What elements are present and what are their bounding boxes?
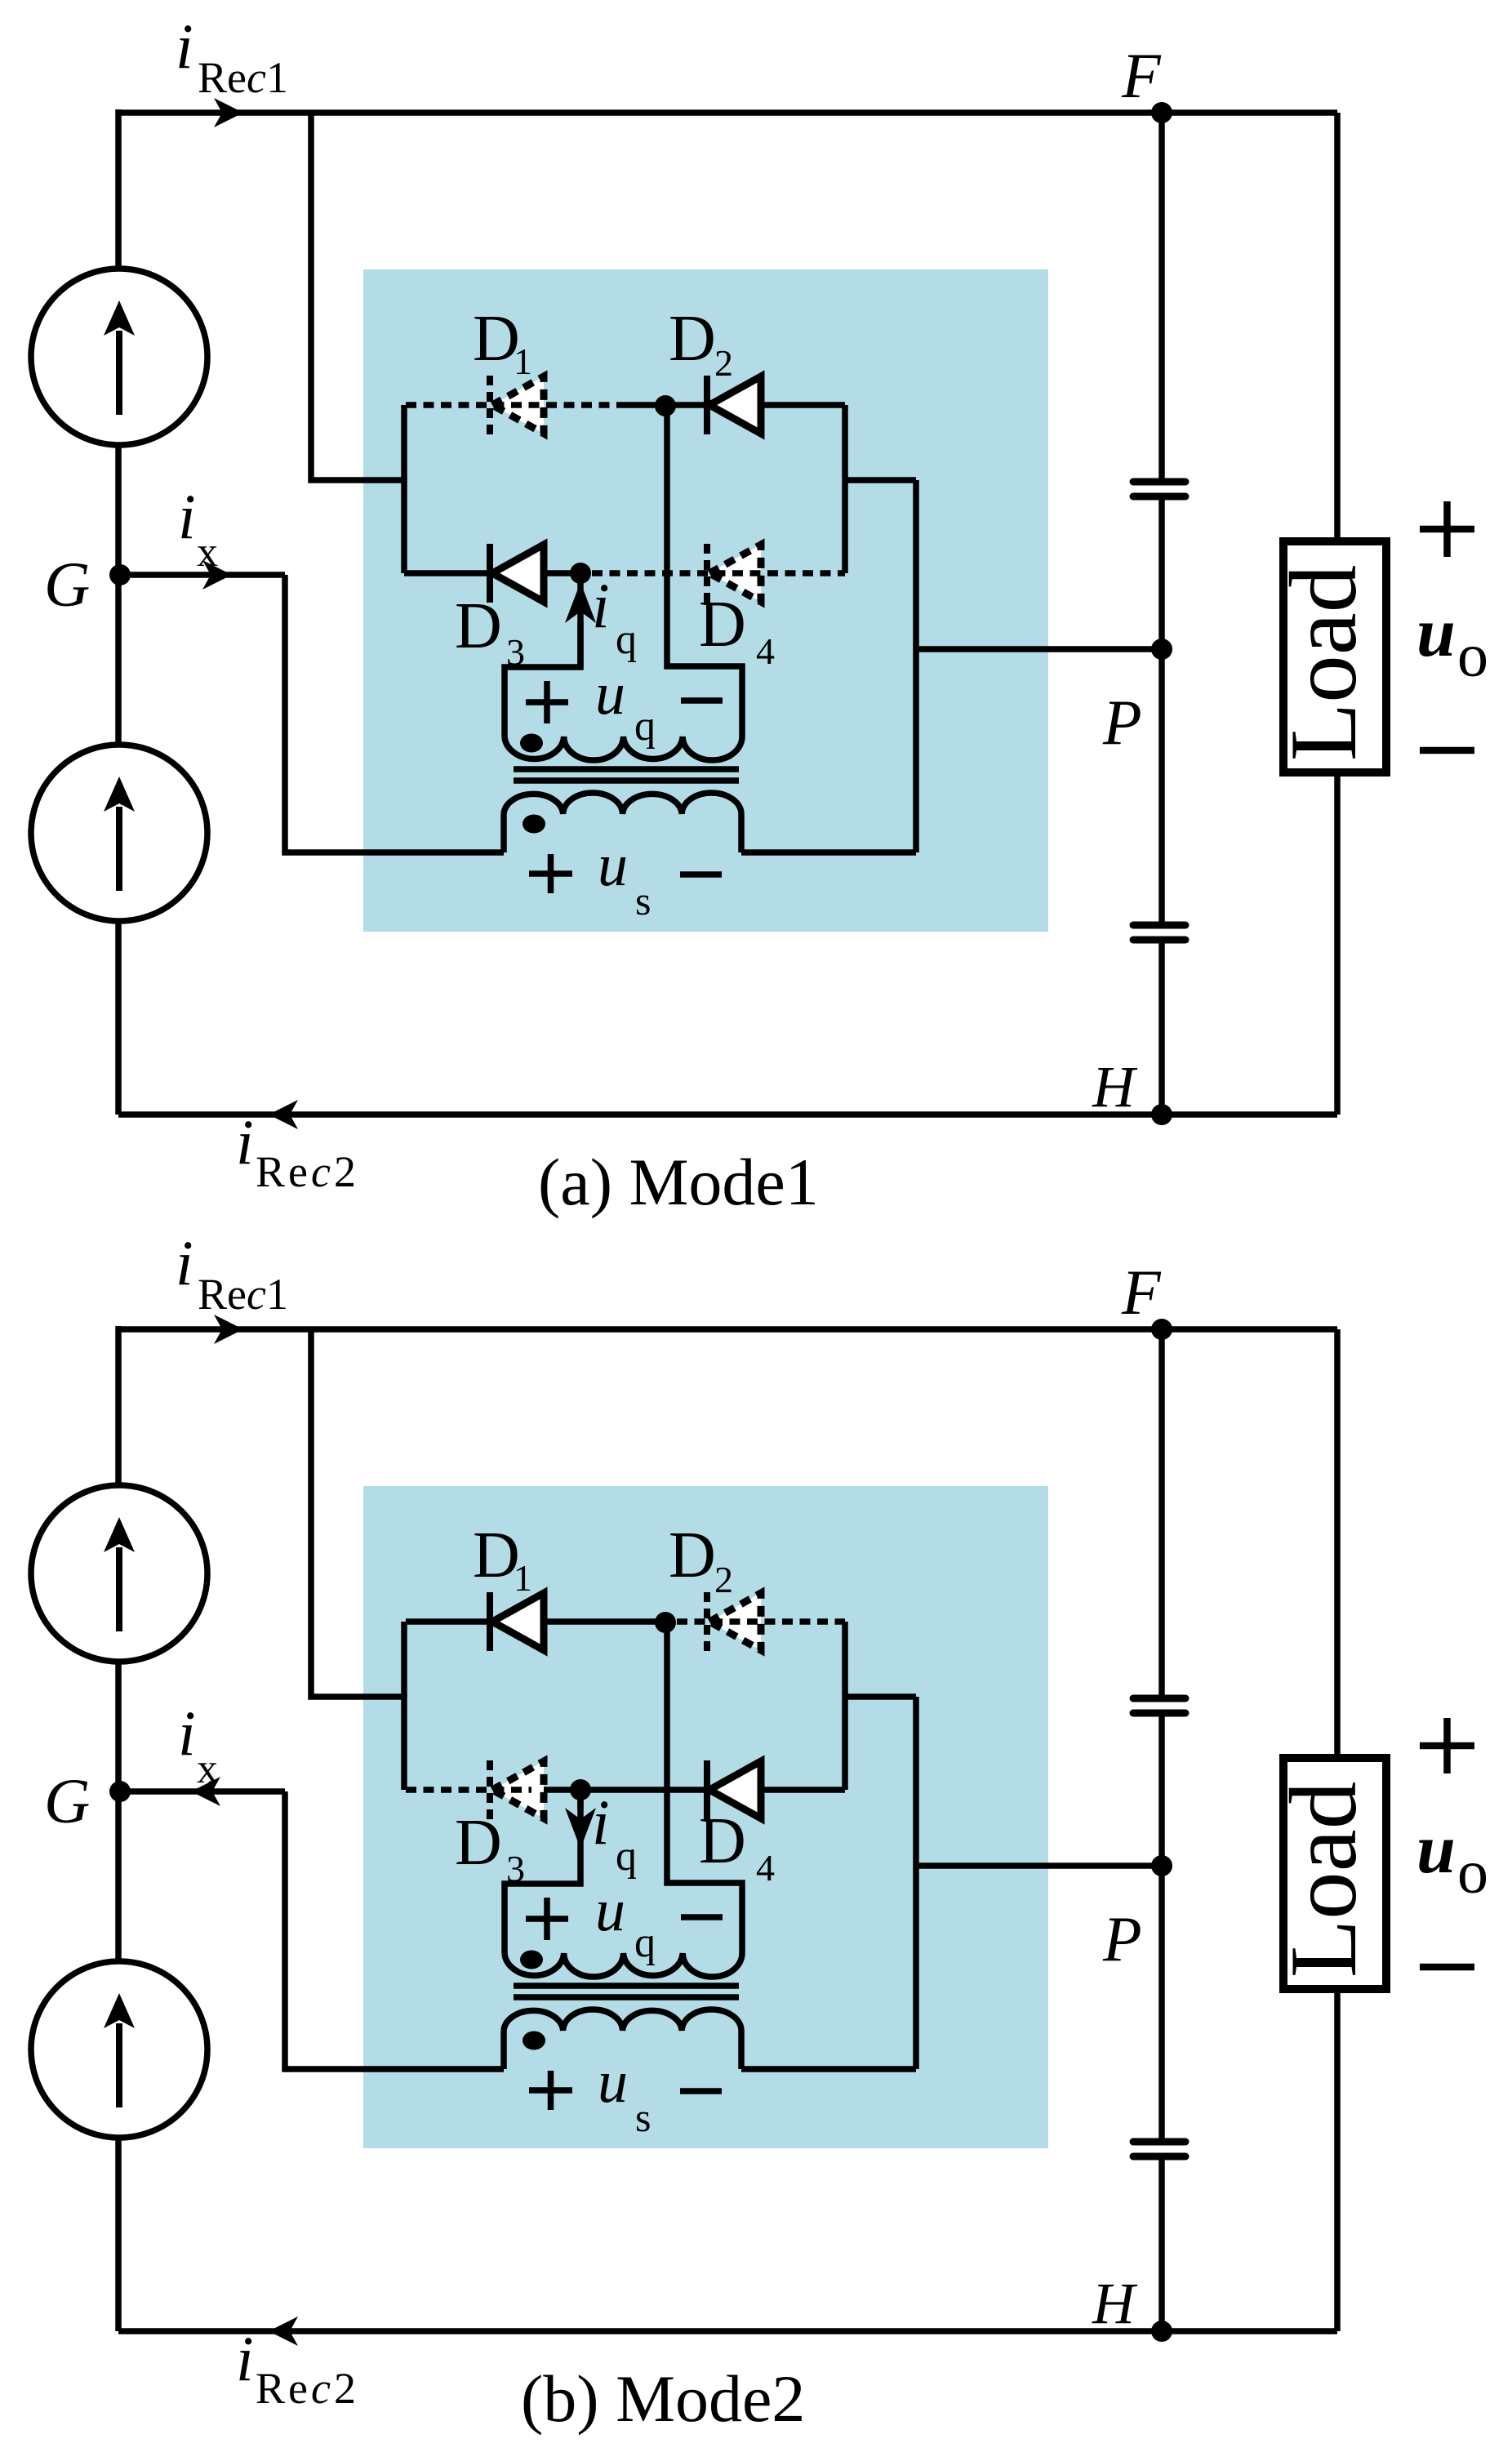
svg-text:F: F	[1121, 1257, 1162, 1328]
wire: left branch lower	[115, 2136, 122, 2331]
current source 1	[31, 269, 207, 445]
node H dot	[1151, 1104, 1172, 1125]
wire: iq lead from D3D4 node	[505, 1790, 580, 1953]
current source 2	[31, 745, 207, 921]
transformer: core lines	[514, 1986, 739, 1997]
wire: center rail F to C1	[1158, 113, 1165, 478]
svg-text:s: s	[635, 2094, 651, 2140]
arrow iRec2	[269, 1100, 298, 1129]
node D1-D2 midpoint dot	[655, 395, 676, 416]
svg-text:G: G	[44, 1765, 90, 1836]
node D3-D4 midpoint dot	[570, 563, 591, 584]
wire: left branch upper	[115, 1326, 122, 1488]
current source 1	[31, 1485, 207, 1662]
wire: bridge right jog	[845, 477, 916, 483]
svg-text:D: D	[669, 1520, 716, 1591]
wire: uq right lead	[667, 406, 742, 737]
node G dot	[109, 1781, 131, 1802]
current source 2	[31, 1961, 207, 2138]
wire: D1 row (solid)	[406, 1618, 665, 1625]
wire: node P branch	[916, 1862, 1162, 1869]
svg-text:o: o	[1457, 1838, 1488, 1907]
svg-text:Rec1: Rec1	[198, 53, 288, 102]
capacitor C1	[1133, 482, 1185, 496]
wire: center rail C1 to C2	[1158, 500, 1165, 922]
svg-text:Rec2: Rec2	[256, 1147, 359, 1196]
wire: us right edge	[738, 814, 745, 852]
wire: bridge right vertical	[842, 405, 848, 573]
svg-text:D: D	[699, 1805, 746, 1877]
wire: bridge left vertical	[401, 405, 407, 573]
arrow iq (downward)	[577, 1790, 584, 1809]
svg-text:D: D	[455, 1807, 502, 1879]
svg-text:i: i	[236, 1106, 254, 1177]
wire: D4 row (solid)	[531, 1787, 845, 1793]
svg-text:3: 3	[506, 1848, 525, 1889]
label uq with polarity signs	[526, 1898, 568, 1940]
svg-text:4: 4	[756, 630, 775, 672]
transformer: core lines	[514, 769, 739, 781]
node P dot	[1151, 639, 1172, 660]
svg-text:D: D	[699, 589, 746, 661]
wire: iq lead from D3D4 node	[505, 573, 580, 737]
capacitor C1	[1133, 1698, 1185, 1713]
transformer: uq polarity dot	[520, 1951, 543, 1969]
svg-text:2: 2	[714, 342, 733, 384]
svg-text:o: o	[1457, 621, 1488, 690]
svg-text:u: u	[598, 832, 628, 899]
diode D4	[707, 1760, 761, 1819]
svg-text:s: s	[635, 878, 651, 923]
diode D3	[490, 544, 544, 603]
svg-text:q: q	[634, 1920, 656, 1966]
node D1-D2 midpoint dot	[655, 1612, 676, 1633]
wire: top rail F	[118, 1326, 1337, 1333]
wire: iRec1 drop to bridge	[311, 1329, 406, 1697]
node F dot	[1151, 1319, 1172, 1340]
transformer: uq secondary winding arcs	[505, 1953, 742, 1977]
node H dot	[1151, 2321, 1172, 2342]
rectifier cell highlight box	[363, 1486, 1048, 2148]
svg-text:P: P	[1102, 1903, 1142, 1974]
arrow iRec1	[214, 1315, 243, 1344]
wire: center rail F to C1	[1158, 1329, 1165, 1695]
wire: bridge right vertical	[842, 1622, 848, 1790]
svg-text:F: F	[1121, 40, 1162, 111]
wire: D1 row (dashed, inactive)	[406, 402, 618, 408]
svg-text:i: i	[176, 1227, 193, 1298]
label uo with polarity signs	[1420, 501, 1474, 557]
transformer: us polarity dot	[523, 815, 545, 834]
wire: load branch lower	[1334, 772, 1341, 1115]
arrow iRec2	[269, 2316, 298, 2346]
wire: D2 row (solid)	[618, 402, 845, 408]
label us with polarity signs	[529, 2071, 572, 2110]
capacitor C2	[1133, 925, 1185, 940]
wire: bottom rail H	[118, 1111, 1337, 1118]
svg-text:q: q	[616, 1833, 637, 1880]
node P dot	[1151, 1855, 1172, 1876]
wire: left branch middle	[115, 443, 122, 746]
svg-text:Load: Load	[1271, 1782, 1376, 1978]
arrow ix (leftward)	[191, 1777, 220, 1806]
svg-text:q: q	[634, 703, 656, 750]
wire: us right lead	[741, 849, 916, 856]
diode D3	[490, 1760, 544, 1819]
rectifier cell highlight box	[363, 269, 1048, 932]
wire: us left edge	[500, 2031, 507, 2069]
wire: left branch upper	[115, 109, 122, 271]
wire: D2 row (dashed, inactive)	[677, 1618, 845, 1625]
transformer: us primary winding arcs	[504, 793, 741, 814]
arrow iq (upward)	[577, 622, 584, 667]
svg-text:i: i	[178, 1698, 196, 1769]
svg-text:2: 2	[714, 1559, 733, 1600]
svg-text:i: i	[178, 481, 196, 552]
wire: D3 row (solid)	[404, 570, 580, 576]
load resistor box	[1283, 1758, 1386, 1989]
node G dot	[109, 564, 131, 585]
svg-text:u: u	[595, 661, 625, 728]
wire: ix down leg	[285, 1791, 504, 2069]
wire: center rail C2 to H	[1158, 2160, 1165, 2331]
wire: left branch middle	[115, 1660, 122, 1963]
transformer: us polarity dot	[523, 2032, 545, 2050]
wire: ix down leg	[285, 575, 504, 852]
wire: load branch upper	[1334, 1329, 1341, 1758]
wire: ix horizontal from G	[120, 572, 285, 578]
svg-text:u: u	[598, 2049, 628, 2116]
diode D2	[707, 1592, 761, 1651]
node F dot	[1151, 102, 1172, 123]
svg-text:1: 1	[514, 1557, 532, 1599]
label uo with polarity signs	[1420, 1718, 1474, 1773]
label us with polarity signs	[529, 854, 572, 893]
arrow iRec1	[214, 98, 243, 127]
svg-text:H: H	[1092, 2271, 1138, 2336]
wire: D4 row (dashed, inactive)	[592, 570, 845, 576]
svg-text:i: i	[592, 1787, 610, 1858]
wire: node P branch	[916, 646, 1162, 652]
diode D4	[707, 544, 761, 603]
svg-text:x: x	[197, 1746, 218, 1792]
wire: D3 row (dashed, inactive)	[406, 1787, 531, 1793]
node D3-D4 midpoint dot	[570, 1779, 591, 1800]
svg-text:4: 4	[756, 1847, 775, 1889]
wire: top rail F	[118, 109, 1337, 116]
wire: uq right lead	[667, 1622, 742, 1953]
wire: bridge right jog	[845, 1693, 916, 1700]
svg-text:G: G	[44, 549, 90, 620]
svg-text:u: u	[595, 1877, 625, 1944]
svg-text:D: D	[669, 303, 716, 375]
transformer: us primary winding arcs	[504, 2009, 741, 2031]
capacitor C2	[1133, 2142, 1185, 2156]
wire: load branch lower	[1334, 1989, 1341, 2331]
wire: us left edge	[500, 814, 507, 852]
wire: right stem of transformer	[913, 480, 919, 852]
svg-text:Rec2: Rec2	[256, 2364, 359, 2413]
svg-text:H: H	[1092, 1054, 1138, 1119]
svg-text:i: i	[176, 11, 193, 82]
diode D2	[707, 376, 761, 434]
svg-text:i: i	[592, 570, 610, 641]
transformer: uq secondary winding arcs	[505, 737, 742, 760]
diode D1	[490, 376, 544, 434]
svg-text:(b) Mode2: (b) Mode2	[521, 2361, 805, 2436]
load resistor box	[1283, 541, 1386, 772]
wire: right stem of transformer	[913, 1697, 919, 2069]
diode D1	[490, 1592, 544, 1651]
label uq with polarity signs	[526, 681, 568, 723]
wire: center rail C1 to C2	[1158, 1716, 1165, 2138]
svg-text:Load: Load	[1271, 565, 1376, 761]
svg-text:(a) Mode1: (a) Mode1	[538, 1145, 819, 1219]
wire: center rail C2 to H	[1158, 943, 1165, 1115]
wire: load branch upper	[1334, 113, 1341, 541]
svg-text:x: x	[197, 529, 218, 576]
svg-text:1: 1	[514, 340, 532, 382]
svg-text:i: i	[236, 2323, 254, 2394]
svg-text:3: 3	[506, 631, 525, 673]
svg-text:u: u	[1416, 1809, 1456, 1888]
svg-text:P: P	[1102, 687, 1142, 758]
svg-text:u: u	[1416, 593, 1456, 671]
svg-text:Rec1: Rec1	[198, 1270, 288, 1319]
wire: left branch lower	[115, 919, 122, 1115]
wire: iRec1 drop to bridge	[311, 113, 406, 480]
wire: bottom rail H	[118, 2328, 1337, 2334]
transformer: uq polarity dot	[520, 734, 543, 753]
wire: bridge left vertical	[401, 1622, 407, 1790]
svg-text:q: q	[616, 616, 637, 663]
wire: us right edge	[738, 2031, 745, 2069]
wire: us right lead	[741, 2066, 916, 2072]
svg-text:D: D	[455, 590, 502, 662]
arrow ix (rightward)	[202, 560, 232, 590]
wire: ix horizontal from G	[120, 1788, 285, 1795]
